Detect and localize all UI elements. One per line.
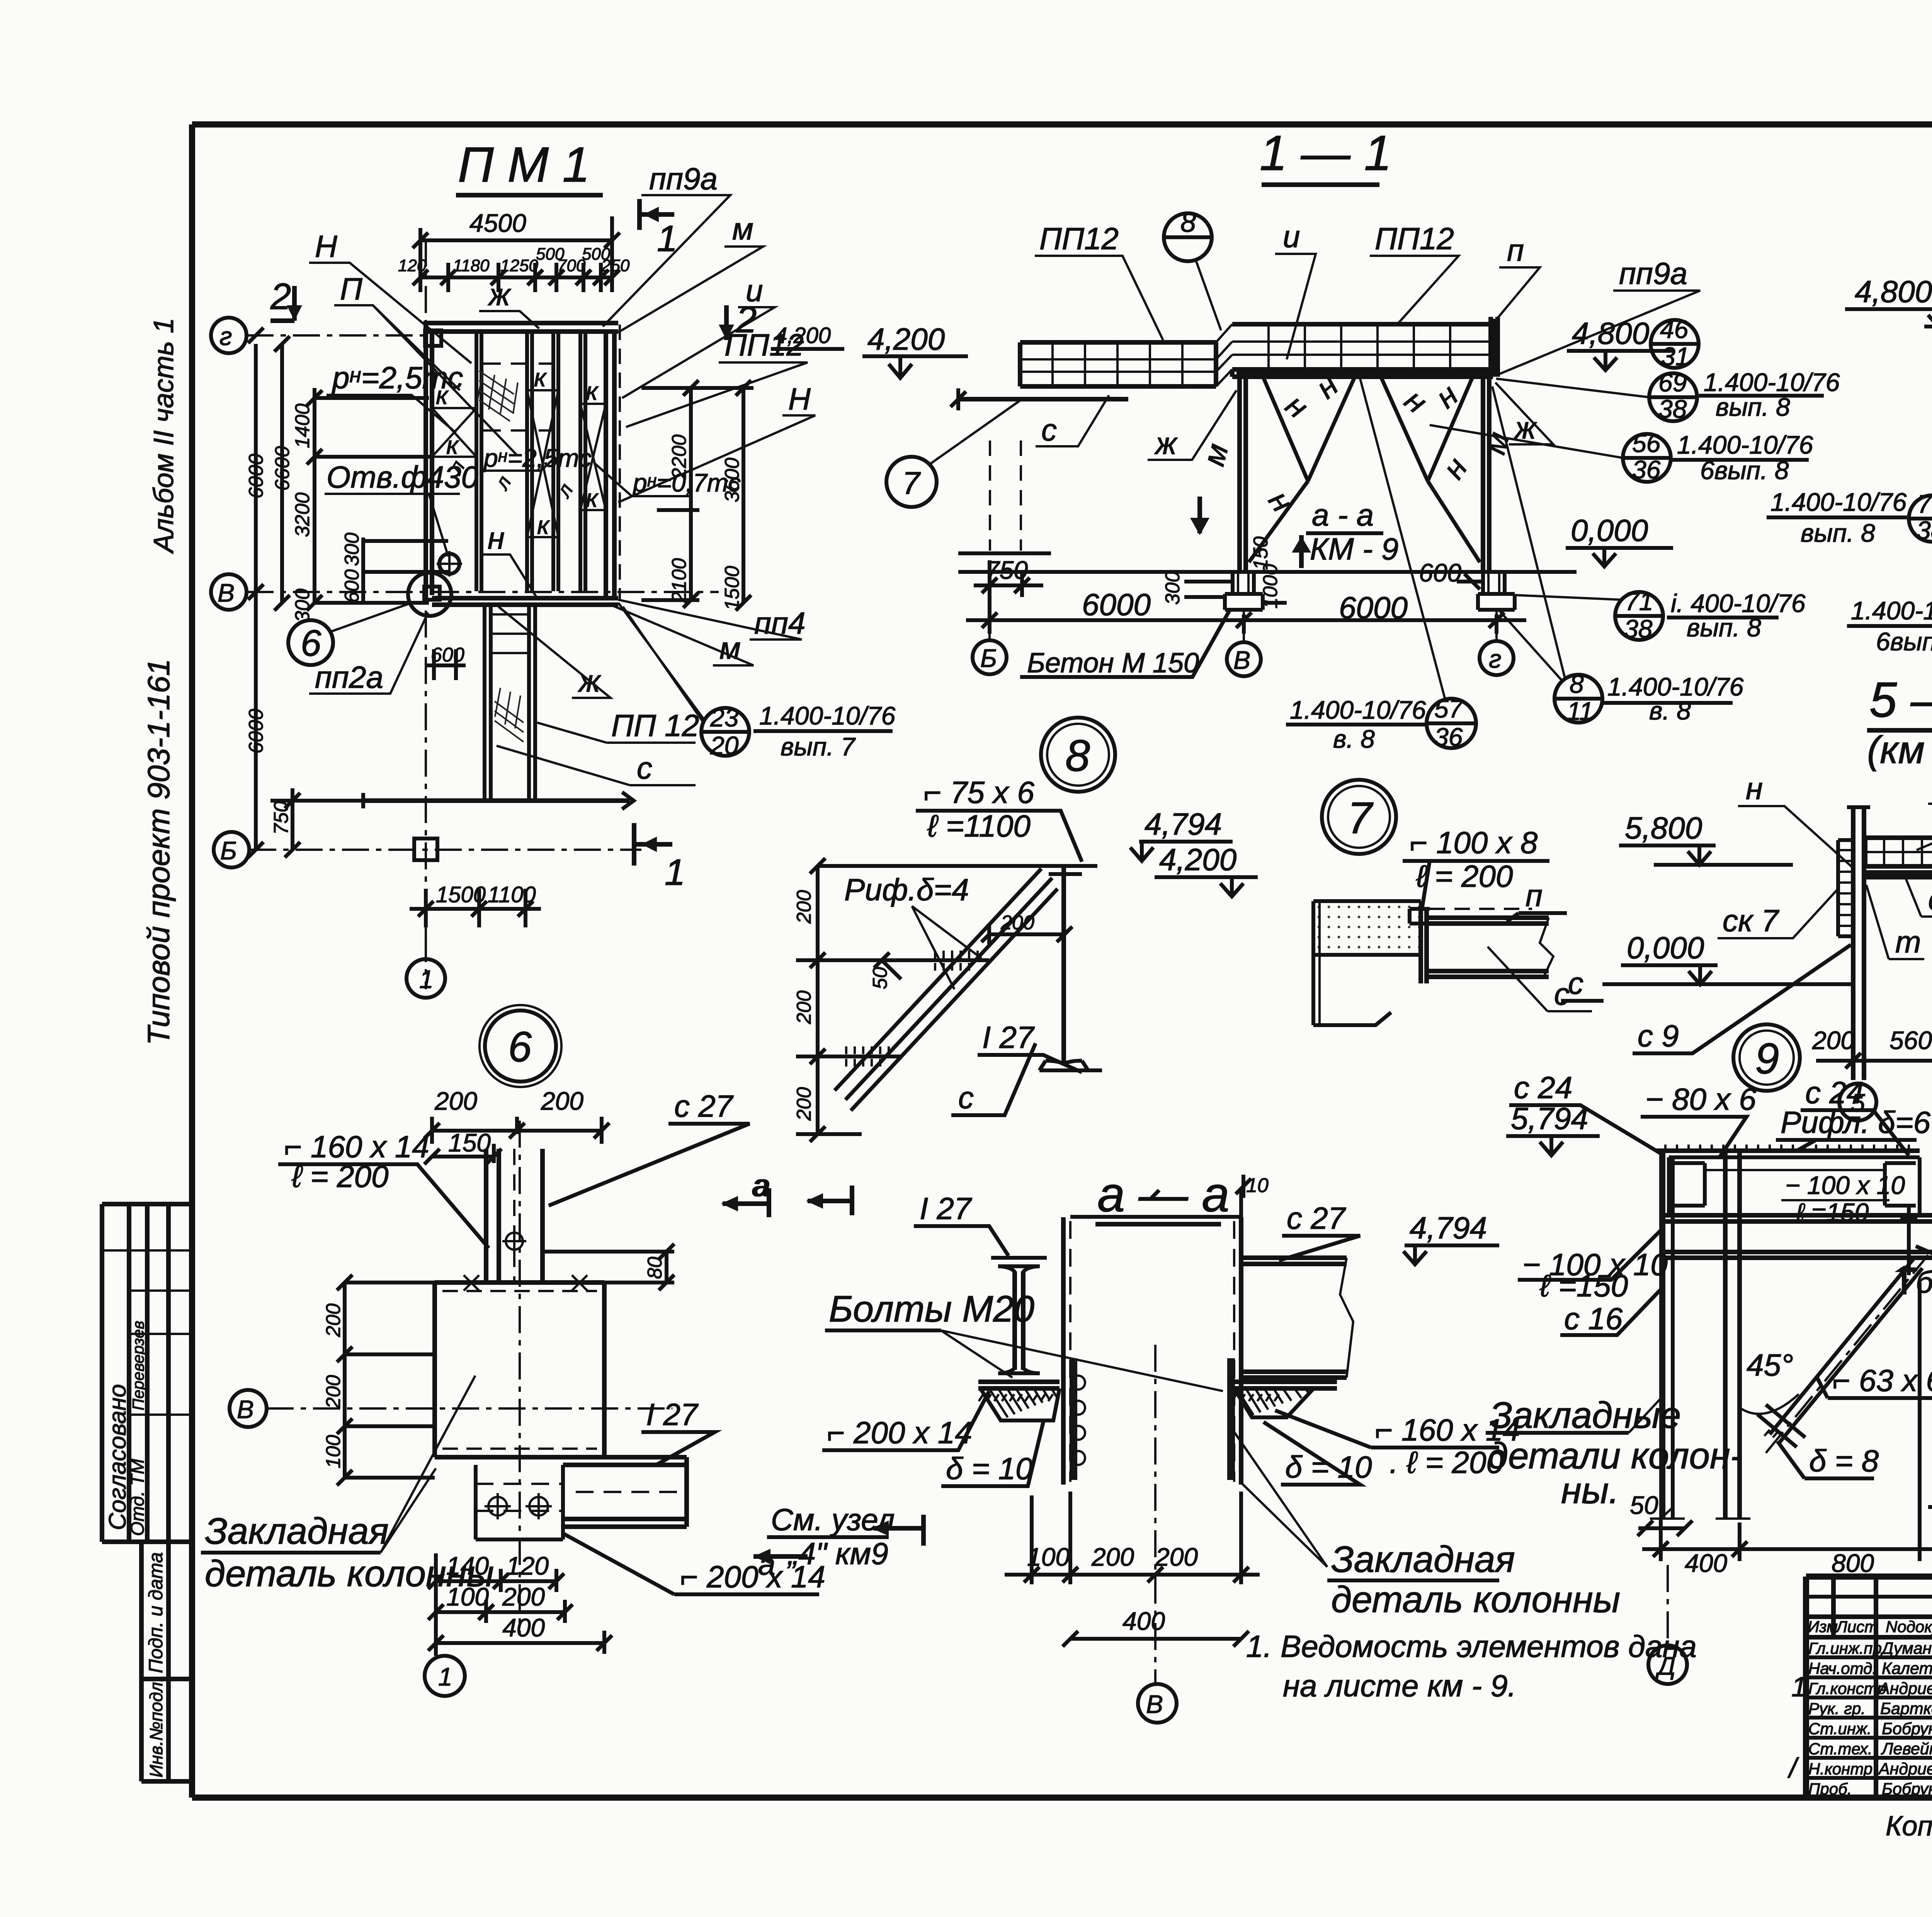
callout 71/38 — [1909, 495, 1932, 542]
right footing — [1478, 572, 1515, 610]
svg-text:750: 750 — [985, 556, 1028, 584]
svg-text:/: / — [1787, 1753, 1799, 1784]
weld ticks under plate — [979, 1394, 1053, 1401]
svg-text:38: 38 — [1658, 395, 1687, 423]
svg-text:с 27: с 27 — [1287, 1201, 1346, 1235]
svg-text:− 100 x 10: − 100 x 10 — [1785, 1171, 1905, 1199]
svg-text:− 80 x 6: − 80 x 6 — [1645, 1082, 1756, 1116]
svg-text:4,200: 4,200 — [867, 322, 945, 356]
big node circle 9 — [1733, 1024, 1800, 1091]
axis circle V — [230, 1390, 267, 1427]
svg-text:120: 120 — [398, 256, 427, 275]
svg-text:а - а: а - а — [1312, 498, 1374, 532]
svg-text:45°: 45° — [1747, 1348, 1793, 1382]
svg-text:I 27: I 27 — [920, 1191, 972, 1226]
plan left edge — [426, 323, 432, 598]
svg-text:рн=2,5тс: рн=2,5тс — [483, 444, 592, 472]
hidden column under left platform — [990, 441, 1021, 551]
leader crossing to callout 57/36 — [1360, 379, 1445, 699]
right gussets — [1234, 1388, 1314, 1417]
svg-text:„4" км9: „4" км9 — [787, 1536, 888, 1571]
svg-text:6600: 6600 — [271, 446, 294, 491]
svg-text:δ = 10: δ = 10 — [946, 1451, 1033, 1486]
svg-text:38: 38 — [1917, 516, 1932, 544]
dims 1500 1100 — [410, 889, 541, 927]
svg-text:Nодокум.: Nодокум. — [1886, 1618, 1932, 1636]
svg-text:в. 8: в. 8 — [1333, 725, 1375, 753]
svg-text:3600: 3600 — [721, 458, 743, 502]
staff table verticals — [1833, 1577, 1932, 1798]
hidden dashed top — [1430, 908, 1532, 910]
weld tick rows — [846, 951, 978, 1067]
svg-text:рн=2,5тс: рн=2,5тс — [332, 361, 463, 395]
svg-text:Б: Б — [220, 836, 237, 865]
svg-text:Бетон М 150: Бетон М 150 — [1027, 648, 1199, 679]
knee braces right — [1381, 378, 1480, 562]
bottom breaks — [1650, 1507, 1750, 1519]
right leg — [1483, 377, 1489, 572]
svg-text:м: м — [732, 212, 753, 246]
bolt right vertical — [1900, 1206, 1917, 1275]
top channel frame — [1669, 1157, 1920, 1215]
svg-text:6000: 6000 — [245, 709, 267, 754]
svg-text:2: 2 — [270, 276, 291, 317]
axis circle V bottom — [1227, 642, 1261, 676]
svg-text:6000: 6000 — [1082, 587, 1151, 622]
svg-text:1.400-10/76: 1.400-10/76 — [1851, 596, 1932, 625]
circle 7 callout — [886, 457, 937, 507]
corner square top-left — [425, 330, 441, 346]
svg-text:П: П — [340, 272, 363, 306]
svg-text:2100: 2100 — [668, 558, 690, 603]
platform grating — [1865, 838, 1932, 866]
axis circle g bottom — [1480, 641, 1514, 675]
bolt on column — [506, 1233, 523, 1250]
svg-text:ℓ = 200: ℓ = 200 — [291, 1159, 389, 1194]
end post right — [1491, 317, 1498, 377]
svg-text:с: с — [1041, 413, 1057, 447]
a-a section mark — [1197, 497, 1202, 533]
svg-text:ж: ж — [488, 277, 511, 312]
svg-text:δ = 10: δ = 10 — [1285, 1450, 1372, 1484]
left platform grating — [1020, 342, 1216, 386]
svg-text:1400: 1400 — [291, 403, 314, 448]
svg-text:1. Ведомость элементов дана: 1. Ведомость элементов дана — [1246, 1629, 1697, 1664]
svg-text:300: 300 — [1162, 571, 1184, 605]
svg-text:57: 57 — [1434, 694, 1464, 723]
left leg — [1240, 377, 1246, 572]
svg-text:4,794: 4,794 — [1145, 807, 1222, 841]
right platform grating — [1232, 319, 1493, 377]
svg-text:Гл.инж.пр: Гл.инж.пр — [1808, 1639, 1882, 1657]
svg-text:200: 200 — [1091, 1543, 1134, 1571]
svg-text:120: 120 — [506, 1551, 549, 1580]
svg-text:I 27: I 27 — [646, 1397, 699, 1432]
inner beams vertical — [476, 332, 585, 591]
svg-text:Согласовано: Согласовано — [104, 1384, 131, 1530]
I beam elevation — [991, 1258, 1047, 1272]
left support bracket line — [958, 397, 1128, 401]
svg-text:(км - 9): (км - 9) — [1867, 728, 1932, 772]
svg-text:н: н — [1398, 383, 1434, 420]
svg-text:7: 7 — [1347, 793, 1374, 843]
svg-text:В: В — [237, 1395, 254, 1424]
svg-text:1: 1 — [665, 852, 685, 893]
axis circle 1 — [425, 1656, 465, 1696]
svg-text:вып. 8: вып. 8 — [1687, 613, 1761, 642]
svg-text:В: В — [218, 578, 235, 607]
svg-text:8: 8 — [1065, 731, 1090, 781]
dashed axis to circle 1 — [425, 927, 427, 958]
svg-text:с: с — [958, 1080, 974, 1115]
svg-text:а: а — [753, 1168, 771, 1203]
svg-text:Болты М20: Болты М20 — [829, 1288, 1034, 1330]
svg-text:1: 1 — [419, 965, 434, 993]
svg-text:3200: 3200 — [291, 492, 314, 537]
axis circle g — [211, 318, 247, 353]
callout 69/38 with text — [1649, 373, 1697, 421]
svg-text:ПП 12: ПП 12 — [611, 708, 699, 743]
axis line B — [249, 849, 641, 851]
callout 56/36 with text — [1623, 434, 1671, 482]
svg-text:600: 600 — [431, 644, 464, 666]
svg-text:1100: 1100 — [488, 882, 536, 907]
svg-text:400: 400 — [1685, 1549, 1727, 1577]
svg-text:с: с — [1568, 966, 1583, 1000]
callout 57/36 with text — [1427, 699, 1476, 748]
corner square at V axis — [424, 587, 440, 600]
svg-text:250: 250 — [601, 256, 630, 275]
svg-text:36: 36 — [1632, 455, 1661, 484]
svg-text:4,794: 4,794 — [1410, 1211, 1487, 1245]
svg-text:2200: 2200 — [668, 434, 690, 480]
svg-text:Б: Б — [980, 644, 997, 672]
svg-text:Левейка: Левейка — [1881, 1740, 1932, 1758]
svg-text:750: 750 — [270, 801, 293, 835]
svg-text:пп9а: пп9а — [1619, 256, 1687, 291]
bottom bearing beam V axis — [432, 598, 618, 605]
bottom chord — [1865, 873, 1932, 877]
left column face — [1061, 1217, 1066, 1485]
svg-text:69: 69 — [1658, 368, 1687, 397]
svg-text:7: 7 — [902, 466, 921, 501]
svg-text:ℓ =1100: ℓ =1100 — [927, 809, 1031, 843]
svg-text:800: 800 — [1832, 1549, 1874, 1577]
callout circle 8 top — [1164, 213, 1212, 261]
svg-text:ск 7: ск 7 — [1723, 903, 1779, 938]
svg-text:1.400-10/76: 1.400-10/76 — [1704, 368, 1840, 396]
lower block — [1318, 901, 1321, 1025]
svg-text:вып. 7: вып. 7 — [781, 732, 856, 761]
angle seat on top — [1410, 909, 1430, 924]
channel beam right — [1241, 1258, 1347, 1378]
svg-text:9: 9 — [1755, 1034, 1779, 1083]
svg-text:В: В — [1146, 1690, 1163, 1718]
svg-text:См. узел: См. узел — [771, 1502, 895, 1537]
svg-text:1: 1 — [1791, 1672, 1807, 1703]
node 6 callout circle — [288, 620, 333, 665]
plan vertical centerline — [425, 240, 427, 989]
svg-text:к: к — [537, 511, 550, 539]
svg-text:4,200: 4,200 — [1159, 842, 1236, 877]
svg-text:н: н — [1436, 451, 1474, 485]
svg-text:200: 200 — [322, 1303, 345, 1337]
svg-text:300: 300 — [291, 589, 314, 622]
bolts — [488, 1497, 507, 1516]
svg-text:4,200: 4,200 — [775, 323, 831, 348]
svg-text:В: В — [1233, 646, 1250, 674]
svg-text:1: 1 — [438, 1662, 452, 1691]
svg-text:пп9а: пп9а — [649, 162, 718, 196]
svg-text:Закладная: Закладная — [1331, 1539, 1515, 1580]
svg-text:Рук. гр.: Рук. гр. — [1808, 1699, 1866, 1718]
dims 200 5600 200 — [1816, 1012, 1932, 1074]
dims 6000 6000 — [966, 603, 1526, 634]
svg-text:пп2а: пп2а — [315, 660, 383, 694]
svg-text:Н: Н — [788, 382, 811, 416]
axis circle B bottom — [973, 640, 1007, 674]
beam double lines — [1661, 1215, 1932, 1258]
axis line g — [247, 334, 429, 337]
svg-text:Альбом II часть 1: Альбом II часть 1 — [148, 318, 179, 554]
top dim + 10 — [1070, 1190, 1241, 1221]
svg-text:6вып. 8: 6вып. 8 — [1876, 627, 1932, 656]
svg-text:вып. 8: вып. 8 — [1801, 519, 1875, 547]
svg-text:200: 200 — [793, 890, 815, 924]
svg-text:1180: 1180 — [453, 256, 490, 275]
dim 4500 top — [420, 216, 612, 263]
dim 750 left — [270, 788, 363, 850]
svg-text:Нач.отд.: Нач.отд. — [1808, 1659, 1877, 1677]
svg-text:к: к — [586, 484, 599, 512]
dim 80 right — [543, 1244, 674, 1290]
dim 600 below corner — [425, 649, 466, 680]
svg-text:1250: 1250 — [500, 256, 538, 275]
svg-text:⌐ 75 x 6: ⌐ 75 x 6 — [923, 775, 1034, 810]
soglasovano table — [102, 1204, 189, 1542]
svg-text:6вып. 8: 6вып. 8 — [1700, 456, 1789, 485]
left dim chain 1400/3200 etc — [315, 388, 432, 603]
header texts — [1808, 1618, 1932, 1636]
dim ext lines + 200 dims — [796, 866, 989, 1134]
section mark b bottom — [1902, 1267, 1906, 1294]
big node circle 8 — [1041, 718, 1115, 792]
svg-text:200: 200 — [793, 1087, 815, 1121]
hatch patch lower — [495, 688, 524, 742]
weld x marks — [464, 1275, 587, 1291]
svg-text:т: т — [1895, 925, 1921, 959]
axis circle V — [1138, 1684, 1177, 1723]
svg-text:а — а: а — а — [1097, 1167, 1230, 1222]
anchor loops left — [1071, 1376, 1085, 1465]
svg-text:г: г — [1489, 645, 1502, 673]
centerline — [1154, 1345, 1156, 1685]
svg-text:Бобрук: Бобрук — [1882, 1780, 1932, 1798]
section mark 1 top — [639, 199, 674, 230]
svg-text:Андриевская: Андриевская — [1878, 1760, 1932, 1778]
top chord line — [825, 864, 1043, 868]
svg-text:200: 200 — [793, 990, 815, 1024]
column below plan — [485, 605, 535, 801]
svg-text:п: п — [1526, 878, 1543, 913]
node 6 marker circle at corner — [408, 573, 451, 616]
svg-text:1 — 1: 1 — 1 — [1260, 126, 1392, 181]
svg-text:к: к — [586, 377, 599, 405]
svg-text:100: 100 — [446, 1582, 489, 1611]
svg-text:5,800: 5,800 — [1625, 811, 1702, 845]
sk7 hatched strip — [1838, 840, 1853, 936]
svg-text:200: 200 — [541, 1087, 583, 1115]
X brace bay1 — [432, 408, 476, 457]
end plate — [1421, 909, 1427, 983]
right beam bottom plate — [1231, 1382, 1337, 1388]
callout 71/38 with text — [1615, 592, 1663, 640]
anchor plate — [435, 1283, 604, 1457]
svg-text:Рифл. δ=6: Рифл. δ=6 — [1781, 1105, 1931, 1140]
plan top beam — [423, 323, 618, 332]
title block outer — [1806, 1577, 1932, 1798]
axis circle 1 bottom — [406, 959, 445, 998]
svg-text:деталь колонны: деталь колонны — [1331, 1579, 1620, 1620]
dim 200 horizontal — [981, 924, 1072, 945]
svg-text:6000: 6000 — [1339, 590, 1408, 625]
svg-text:⌐ 63 x 6: ⌐ 63 x 6 — [1832, 1363, 1932, 1398]
svg-text:Н.контр: Н.контр — [1808, 1760, 1872, 1778]
lower strip podp i data / inv no podl — [141, 1542, 189, 1781]
left column — [1853, 807, 1864, 1080]
big node circle 6 — [485, 1010, 556, 1082]
svg-text:0,000: 0,000 — [1627, 930, 1704, 965]
svg-text:Закладная: Закладная — [205, 1510, 389, 1552]
svg-text:Подп. и дата: Подп. и дата — [145, 1552, 167, 1673]
right column face — [1239, 1217, 1243, 1485]
left dim chain 6000/6600 — [256, 344, 282, 850]
svg-text:в. 8: в. 8 — [1649, 696, 1691, 725]
svg-text:100: 100 — [322, 1435, 345, 1468]
small square on B axis — [414, 839, 437, 860]
svg-text:Н: Н — [315, 229, 337, 264]
column C27 top — [486, 1149, 543, 1283]
I-beam I27 side — [1061, 867, 1066, 1063]
svg-text:к: к — [446, 431, 459, 459]
svg-text:Отв.ф430: Отв.ф430 — [327, 460, 478, 494]
svg-text:⌐ 200 x 14: ⌐ 200 x 14 — [827, 1415, 972, 1450]
ladder rungs — [491, 614, 529, 653]
svg-text:38: 38 — [1624, 614, 1653, 643]
svg-text:н: н — [488, 521, 505, 555]
knee braces left — [1249, 378, 1354, 562]
base plate — [978, 1382, 1060, 1388]
step connection — [1216, 324, 1232, 386]
svg-text:200: 200 — [434, 1087, 477, 1115]
svg-text:⌐ 160 x 14: ⌐ 160 x 14 — [284, 1129, 429, 1164]
callout 46/31 — [1651, 320, 1699, 368]
svg-text:Типовой проект 903-1-161: Типовой проект 903-1-161 — [141, 659, 176, 1045]
brace foot plate — [1757, 1405, 1805, 1447]
svg-text:с 24: с 24 — [1514, 1070, 1572, 1105]
svg-text:0,000: 0,000 — [1571, 513, 1648, 548]
svg-text:Ст.инж.: Ст.инж. — [1808, 1720, 1872, 1738]
big node circle 7 — [1322, 780, 1396, 854]
embedded plates thick — [1073, 1358, 1231, 1480]
right dim chains 2200 3600 / 2100 1500 — [641, 388, 753, 603]
dashed plate top — [442, 1290, 597, 1292]
svg-text:н: н — [1279, 388, 1315, 425]
svg-text:6: 6 — [508, 1023, 532, 1071]
svg-text:ны.: ны. — [1561, 1470, 1619, 1511]
callout 8/11 with text — [1554, 675, 1602, 723]
dim 750 left — [974, 560, 1043, 603]
svg-text:КМ - 9: КМ - 9 — [1310, 532, 1398, 566]
svg-text:5 — 5: 5 — 5 — [1869, 672, 1932, 728]
svg-text:Калетов: Калетов — [1882, 1659, 1932, 1678]
svg-text:1.400-10/76: 1.400-10/76 — [1770, 488, 1907, 516]
X brace bay3 tall — [580, 404, 606, 510]
svg-text:Ст.тех.: Ст.тех. — [1808, 1740, 1872, 1758]
axis circle B — [214, 832, 249, 867]
svg-text:Отд. ТМ: Отд. ТМ — [128, 1459, 148, 1536]
svg-text:Изм: Изм — [1808, 1618, 1838, 1636]
svg-text:1.400-10/76: 1.400-10/76 — [759, 701, 896, 730]
svg-text:80: 80 — [644, 1257, 666, 1279]
svg-text:36: 36 — [1434, 723, 1463, 751]
svg-text:2: 2 — [736, 299, 757, 340]
svg-text:200: 200 — [502, 1582, 545, 1611]
axis circle V — [211, 574, 247, 610]
axis circle 5 — [1839, 1084, 1876, 1121]
svg-text:Закладные: Закладные — [1490, 1395, 1681, 1436]
svg-text:5,794: 5,794 — [1511, 1101, 1588, 1136]
dim 600 right — [1457, 574, 1483, 589]
bottom chord beam — [1232, 369, 1493, 377]
svg-text:ℓ =150: ℓ =150 — [1539, 1269, 1628, 1303]
svg-text:140: 140 — [446, 1551, 489, 1580]
svg-text:4,800: 4,800 — [1572, 316, 1649, 350]
svg-text:4,800: 4,800 — [1855, 274, 1932, 309]
svg-text:8: 8 — [1570, 670, 1584, 698]
svg-text:л: л — [490, 472, 516, 494]
dim row 120 1180 1250 500 700 500 250 — [420, 263, 612, 292]
svg-text:с 9: с 9 — [1638, 1019, 1679, 1053]
svg-text:с: с — [1554, 977, 1570, 1011]
left vertical member — [1659, 1151, 1665, 1519]
svg-text:Риф.δ=4: Риф.δ=4 — [844, 873, 969, 907]
svg-text:71: 71 — [1917, 490, 1932, 518]
svg-text:600: 600 — [341, 569, 363, 603]
svg-text:Бобрук: Бобрук — [1882, 1720, 1932, 1738]
svg-text:ПП12: ПП12 — [1039, 221, 1119, 256]
svg-text:4500: 4500 — [469, 209, 526, 237]
svg-text:300: 300 — [341, 532, 363, 566]
svg-text:5600: 5600 — [1889, 1026, 1932, 1055]
svg-text:и: и — [1283, 219, 1300, 254]
svg-text:на листе км - 9.: на листе км - 9. — [1283, 1669, 1516, 1703]
svg-text:50: 50 — [869, 967, 891, 989]
svg-text:к: к — [534, 363, 547, 392]
svg-text:м: м — [719, 631, 741, 665]
svg-text:с 27: с 27 — [674, 1089, 734, 1123]
svg-text:23: 23 — [710, 703, 739, 732]
channel beam — [1427, 918, 1549, 977]
svg-text:. ℓ = 200: . ℓ = 200 — [1389, 1445, 1503, 1480]
svg-text:11: 11 — [1567, 697, 1594, 725]
svg-text:с 16: с 16 — [1564, 1301, 1623, 1336]
svg-text:200: 200 — [322, 1375, 345, 1409]
axis line V — [247, 591, 719, 593]
svg-text:ℓ = 200: ℓ = 200 — [1416, 859, 1513, 893]
svg-text:с: с — [637, 751, 652, 785]
bracket plate below anchor — [476, 1465, 563, 1539]
